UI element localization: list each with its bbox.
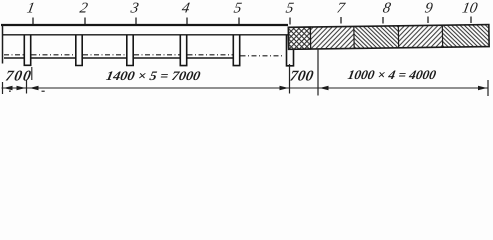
- axis tick 5: [238, 18, 240, 25]
- svg-text:700: 700: [4, 69, 32, 85]
- arrow right of 7000 span: [280, 86, 289, 90]
- axis tick 7: [340, 17, 342, 24]
- scan speck: [42, 91, 45, 92]
- extension line right end: [487, 80, 489, 96]
- extension line left end: [2, 82, 4, 94]
- svg-text:1000 × 4 = 4000: 1000 × 4 = 4000: [347, 67, 438, 82]
- rib 5: [233, 35, 239, 66]
- svg-text:700: 700: [289, 69, 315, 85]
- bay 5 axis dash line: [188, 54, 233, 56]
- extension line axis 1: [26, 80, 28, 94]
- arrow left of 7000 span: [30, 86, 39, 90]
- slab top chord line: [1, 24, 288, 26]
- bay 3 axis dash line: [83, 54, 126, 56]
- arrow left of 4000 span: [320, 86, 329, 90]
- axis tick 2: [84, 18, 86, 25]
- dimension line: [2, 87, 489, 89]
- slab bottom chord line: [2, 34, 288, 36]
- extension line axis 7: [317, 49, 319, 96]
- bay 4 bottom line: [134, 57, 180, 59]
- wall segment 10 hatch \: [442, 25, 489, 48]
- axis tick 1: [32, 18, 34, 25]
- axis tick 6: [289, 18, 291, 25]
- arrow right of 700: [17, 86, 26, 90]
- wall segment 9 hatch /: [398, 25, 442, 48]
- wall band outline: [288, 25, 489, 50]
- arrow right of 4000 span: [478, 86, 487, 90]
- rib 3: [127, 35, 133, 66]
- left edge line: [2, 25, 4, 64]
- wall segment 7 hatch /: [310, 26, 354, 49]
- bay 2 axis dash line: [32, 54, 76, 56]
- svg-text:1400 × 5 = 7000: 1400 × 5 = 7000: [105, 68, 202, 83]
- corner pier crosshatch block: [288, 27, 310, 49]
- axis tick 10: [470, 17, 472, 24]
- axis tick 3: [135, 18, 137, 25]
- wall division at axis 10: [441, 25, 443, 47]
- rib 2: [76, 35, 82, 66]
- wall segment 8 hatch \: [354, 26, 399, 49]
- rib 4: [180, 35, 186, 66]
- bay 6 axis dash line: [241, 55, 285, 57]
- arrow left of 700: [4, 86, 13, 90]
- bay 2 bottom line: [32, 57, 76, 59]
- axis tick 8: [382, 17, 384, 24]
- bay 1 axis dash line: [4, 54, 24, 56]
- rib 6 (edge rib at wall): [287, 35, 294, 66]
- bay 3 bottom line: [83, 57, 126, 59]
- wall band (right, slightly tilted): [288, 25, 489, 50]
- wall band fill: [288, 25, 489, 50]
- axis tick 4: [186, 18, 188, 25]
- bay 1 bottom line: [4, 57, 24, 59]
- bay 4 axis dash line: [134, 54, 180, 56]
- scan speck: [9, 91, 11, 92]
- extension line wall face: [289, 64, 291, 94]
- wall division at axis 9: [397, 26, 399, 48]
- wall division at axis 8: [353, 26, 355, 48]
- extension mark below rib 1: [31, 67, 33, 80]
- rib 1: [24, 35, 30, 66]
- axis tick 9: [427, 17, 429, 24]
- bay 5 bottom line: [188, 57, 233, 59]
